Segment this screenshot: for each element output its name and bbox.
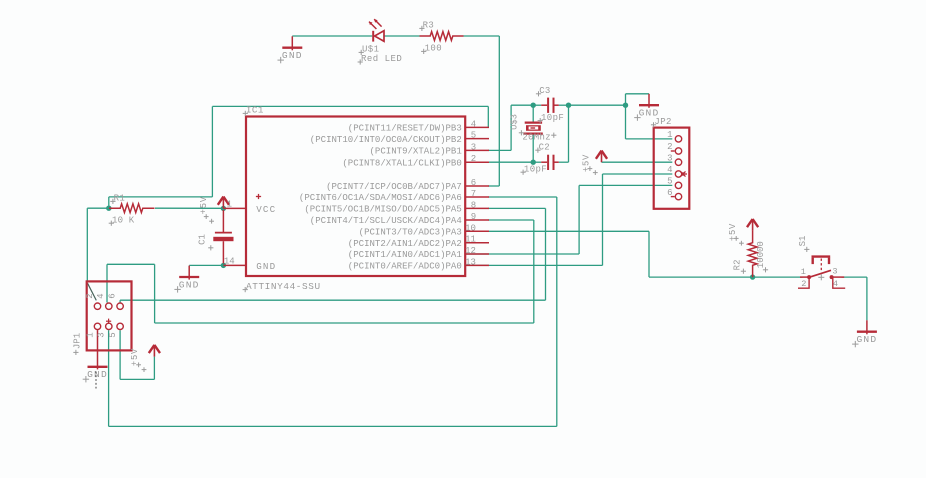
svg-text:1: 1 <box>801 267 806 277</box>
svg-text:5: 5 <box>667 177 672 187</box>
svg-text:C3: C3 <box>539 86 550 96</box>
svg-text:11: 11 <box>465 235 476 245</box>
svg-text:6: 6 <box>108 293 118 298</box>
svg-text:14: 14 <box>224 256 235 266</box>
svg-text:10 K: 10 K <box>112 215 135 225</box>
svg-text:2: 2 <box>85 293 95 298</box>
svg-text:20Mhz: 20Mhz <box>522 132 551 142</box>
svg-text:(PCINT10/INT0/OC0A/CKOUT)PB2: (PCINT10/INT0/OC0A/CKOUT)PB2 <box>310 134 462 145</box>
svg-text:+5V: +5V <box>199 196 209 214</box>
svg-text:7: 7 <box>471 189 476 199</box>
svg-text:(PCINT7/ICP/OC0B/ADC7)PA7: (PCINT7/ICP/OC0B/ADC7)PA7 <box>326 181 462 192</box>
svg-text:(PCINT8/XTAL1/CLKI)PB0: (PCINT8/XTAL1/CLKI)PB0 <box>342 157 461 168</box>
svg-text:(PCINT4/T1/SCL/USCK/ADC4)PA4: (PCINT4/T1/SCL/USCK/ADC4)PA4 <box>310 215 462 226</box>
svg-text:(PCINT1/AIN0/ADC1)PA1: (PCINT1/AIN0/ADC1)PA1 <box>348 249 462 260</box>
svg-text:S1: S1 <box>798 236 808 247</box>
svg-text:JP1: JP1 <box>72 333 82 349</box>
svg-text:6: 6 <box>667 188 672 198</box>
svg-text:JP2: JP2 <box>654 117 671 127</box>
svg-text:(PCINT11/RESET/DW)PB3: (PCINT11/RESET/DW)PB3 <box>348 123 462 134</box>
svg-text:2: 2 <box>471 154 476 164</box>
svg-text:VCC: VCC <box>256 204 276 215</box>
svg-text:IC1: IC1 <box>246 105 264 116</box>
svg-text:GND: GND <box>179 279 200 290</box>
svg-text:10000: 10000 <box>756 241 766 268</box>
svg-text:6: 6 <box>471 178 476 188</box>
svg-text:4: 4 <box>471 119 476 129</box>
svg-text:Red LED: Red LED <box>361 54 402 64</box>
svg-text:U$1: U$1 <box>362 45 379 55</box>
svg-text:3: 3 <box>97 332 107 337</box>
svg-text:10: 10 <box>465 223 476 233</box>
svg-text:5: 5 <box>471 131 476 141</box>
svg-text:10pF: 10pF <box>541 113 564 123</box>
svg-text:(PCINT5/OC1B/MISO/DO/ADC5)PA5: (PCINT5/OC1B/MISO/DO/ADC5)PA5 <box>304 204 461 215</box>
svg-text:100: 100 <box>425 44 442 54</box>
svg-text:4: 4 <box>833 279 838 289</box>
svg-text:1: 1 <box>227 199 232 209</box>
svg-text:8: 8 <box>471 200 476 210</box>
svg-text:(PCINT9/XTAL2)PB1: (PCINT9/XTAL2)PB1 <box>370 146 462 157</box>
svg-text:R2: R2 <box>733 259 743 270</box>
svg-text:2: 2 <box>801 279 806 289</box>
svg-text:10pF: 10pF <box>524 164 547 174</box>
svg-text:ATTINY44-SSU: ATTINY44-SSU <box>246 281 321 292</box>
svg-text:3: 3 <box>667 153 672 163</box>
svg-text:9: 9 <box>471 212 476 222</box>
svg-text:12: 12 <box>465 246 476 256</box>
svg-text:(PCINT2/AIN1/ADC2)PA2: (PCINT2/AIN1/ADC2)PA2 <box>348 238 462 249</box>
svg-text:(PCINT3/T0/ADC3)PA3: (PCINT3/T0/ADC3)PA3 <box>359 227 462 238</box>
svg-text:GND: GND <box>256 261 276 272</box>
svg-text:(PCINT0/AREF/ADC0)PA0: (PCINT0/AREF/ADC0)PA0 <box>348 261 462 272</box>
svg-text:C2: C2 <box>539 142 550 152</box>
svg-text:5: 5 <box>108 332 118 337</box>
svg-text:(PCINT6/OC1A/SDA/MOSI/ADC6)PA6: (PCINT6/OC1A/SDA/MOSI/ADC6)PA6 <box>299 192 462 203</box>
svg-text:1: 1 <box>85 332 95 337</box>
svg-text:4: 4 <box>96 293 106 298</box>
svg-text:GND: GND <box>282 50 303 61</box>
svg-text:GND: GND <box>856 334 877 345</box>
svg-text:2: 2 <box>667 142 672 152</box>
svg-text:3: 3 <box>471 142 476 152</box>
svg-text:GND: GND <box>87 369 108 380</box>
svg-text:R3: R3 <box>423 21 435 31</box>
svg-text:4: 4 <box>667 165 672 175</box>
svg-text:1: 1 <box>667 130 672 140</box>
svg-text:3: 3 <box>832 267 837 277</box>
svg-text:U$3: U$3 <box>510 114 520 130</box>
svg-text:R1: R1 <box>114 194 126 204</box>
svg-text:C1: C1 <box>197 234 207 245</box>
svg-text:13: 13 <box>465 257 476 267</box>
